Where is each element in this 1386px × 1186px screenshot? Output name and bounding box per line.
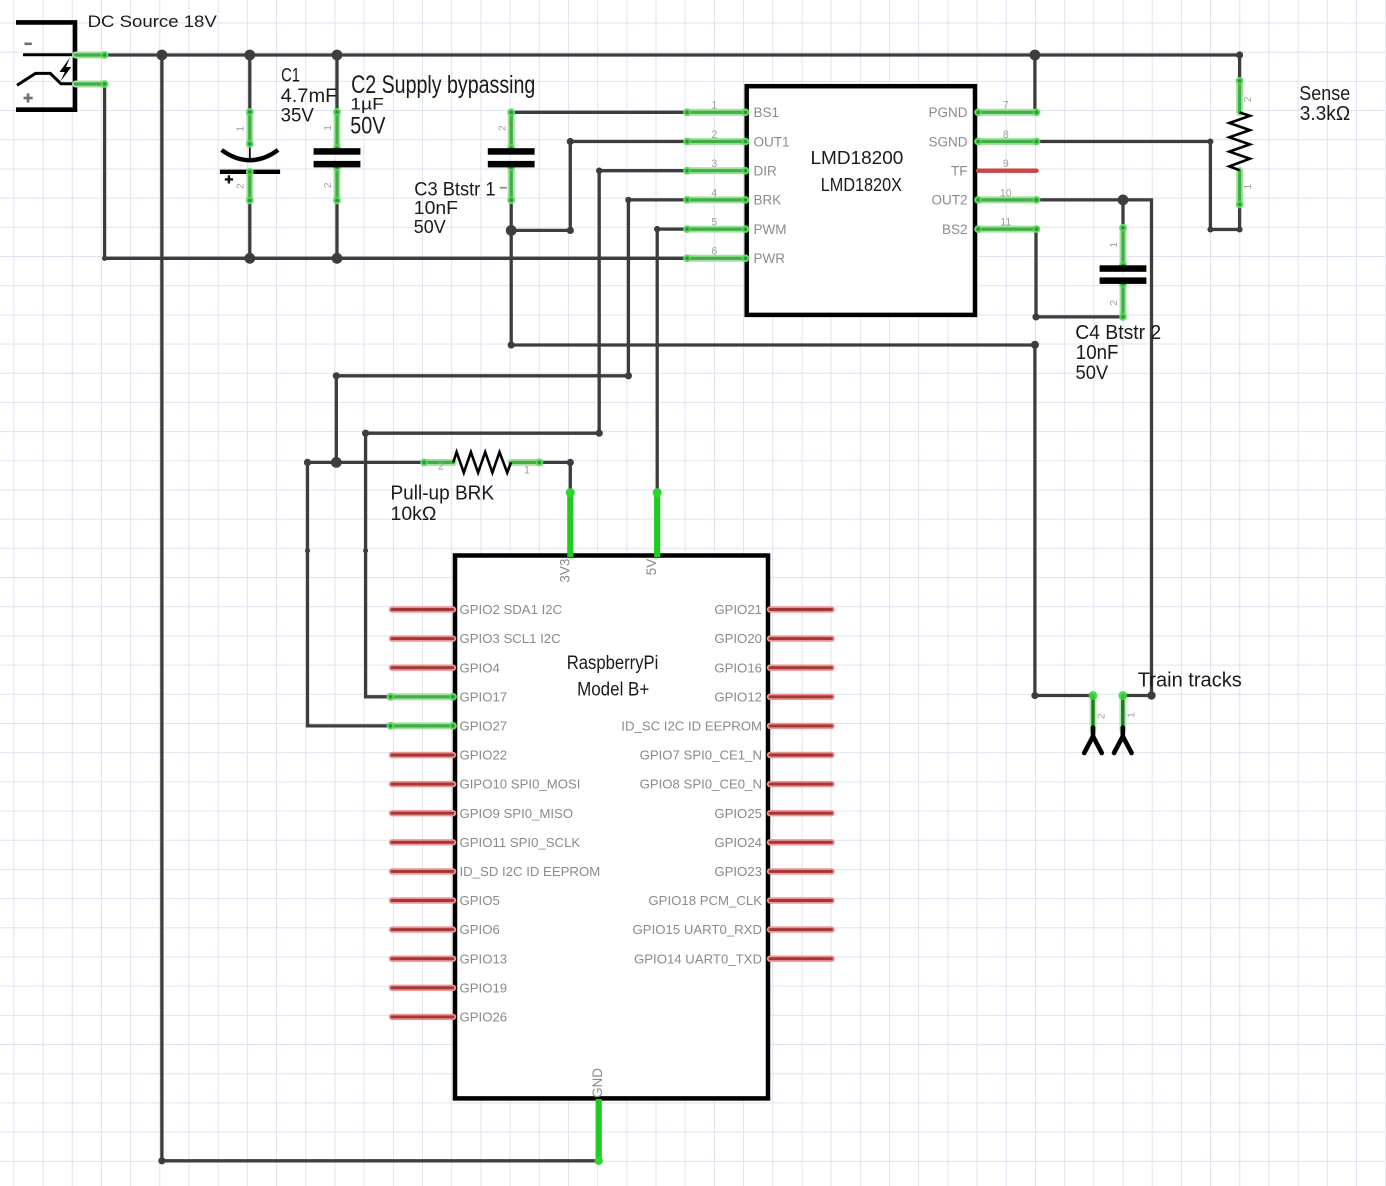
pin lead U1 pin 10 OUT2 lead xyxy=(974,196,1040,204)
pin lead RPi right pin GPIO25 xyxy=(770,810,832,816)
pin lead RPi left pin ID_SD I2C ID EEPROM xyxy=(392,868,453,874)
svg-text:2: 2 xyxy=(711,129,717,141)
wire sense top drop xyxy=(1238,55,1241,81)
svg-text:3: 3 xyxy=(711,158,717,170)
svg-text:1: 1 xyxy=(1127,712,1138,718)
svg-text:GPIO13: GPIO13 xyxy=(460,951,508,966)
pin lead U1 pin 11 BS2 lead xyxy=(974,225,1040,233)
svg-text:TF: TF xyxy=(951,164,968,179)
svg-text:50V: 50V xyxy=(414,216,446,237)
junction GND bend xyxy=(158,1157,165,1164)
pin lead RPi left pin GPIO2 SDA1 I2C xyxy=(392,606,453,612)
wire top supply bus xyxy=(105,53,1240,56)
pin lead RPi left pin GPIO6 xyxy=(392,926,453,932)
pin lead RPi left pin GPIO27 xyxy=(387,722,457,730)
svg-text:9: 9 xyxy=(1003,158,1009,170)
svg-text:GPIO26: GPIO26 xyxy=(460,1010,508,1025)
DC source plus mark xyxy=(24,93,33,102)
capacitor C2 plate 1 xyxy=(314,148,361,155)
svg-text:5: 5 xyxy=(711,217,717,229)
svg-text:GPIO12: GPIO12 xyxy=(714,689,762,704)
train tracks pin 2 xyxy=(1089,691,1098,730)
svg-text:BS2: BS2 xyxy=(942,222,968,237)
svg-text:GPIO17: GPIO17 xyxy=(460,689,508,704)
wire PGND drop xyxy=(1033,55,1036,112)
pin lead resistor Sense pin 2 xyxy=(1236,77,1244,113)
svg-text:10nF: 10nF xyxy=(414,197,458,218)
svg-text:GPIO24: GPIO24 xyxy=(714,835,762,850)
svg-text:50V: 50V xyxy=(350,112,386,139)
pin lead capacitor C3 pin 1 xyxy=(507,163,515,204)
svg-text:2: 2 xyxy=(1097,713,1108,719)
svg-text:2: 2 xyxy=(323,182,334,188)
svg-text:BS1: BS1 xyxy=(754,105,780,120)
svg-text:1: 1 xyxy=(1109,242,1120,248)
label C3 leader dash xyxy=(500,187,507,189)
svg-text:C4 Btstr 2: C4 Btstr 2 xyxy=(1075,322,1161,344)
junction wire joint a xyxy=(305,548,310,553)
capacitor C1 curved plate xyxy=(222,150,279,160)
svg-text:2: 2 xyxy=(1109,300,1120,306)
junction SGND bend b xyxy=(1207,227,1213,233)
svg-text:GPIO7 SPI0_CE1_N: GPIO7 SPI0_CE1_N xyxy=(640,748,762,763)
RPi 3V3 pin xyxy=(566,488,575,557)
junction DIR bend b xyxy=(596,430,603,437)
svg-text:GPIO14 UART0_TXD: GPIO14 UART0_TXD xyxy=(634,951,762,966)
junction 3V3 bend xyxy=(567,459,574,466)
svg-text:GPIO11 SPI0_SCLK: GPIO11 SPI0_SCLK xyxy=(460,835,581,850)
wire pull-up row wire xyxy=(308,461,425,464)
pin lead RPi left pin GPIO11 SPI0_SCLK xyxy=(392,839,453,845)
junction PWR bus end xyxy=(102,256,107,261)
svg-text:3.3kΩ: 3.3kΩ xyxy=(1300,102,1351,125)
svg-text:GPIO6: GPIO6 xyxy=(460,922,500,937)
junction GPIO17 bend xyxy=(362,430,369,437)
junction PWM bend xyxy=(654,226,660,232)
U1 pin 9 TF lead (red) xyxy=(978,168,1037,172)
resistor Sense zigzag xyxy=(1229,113,1250,171)
wire DIR lead wire xyxy=(599,169,687,172)
svg-text:GPIO25: GPIO25 xyxy=(714,806,762,821)
RaspberryPi Model B+ body xyxy=(455,556,768,1099)
wire BRK to pull-up xyxy=(336,200,628,463)
wire C1 bottom stub xyxy=(248,201,251,259)
wire sense bottom stub xyxy=(1238,205,1241,230)
svg-text:GPIO5: GPIO5 xyxy=(460,893,500,908)
svg-text:3V3: 3V3 xyxy=(558,559,573,583)
svg-text:PWR: PWR xyxy=(754,251,786,266)
junction PWR-C2 xyxy=(332,253,343,264)
pin lead U1 pin 2 OUT1 lead xyxy=(683,138,749,146)
junction pull-up node xyxy=(331,457,342,468)
wire 3V3 link xyxy=(540,462,571,492)
svg-text:4.7mF: 4.7mF xyxy=(281,86,338,107)
svg-text:1: 1 xyxy=(323,125,334,131)
capacitor C4 plate 2 xyxy=(1100,277,1147,284)
svg-text:2: 2 xyxy=(236,183,247,189)
svg-text:7: 7 xyxy=(1003,100,1009,112)
svg-text:GPIO18 PCM_CLK: GPIO18 PCM_CLK xyxy=(648,893,762,908)
pin lead RPi left pin GPIO3 SCL1 I2C xyxy=(392,635,453,641)
train tracks pin 2 loose-end prongs xyxy=(1084,728,1102,754)
pin lead U1 pin 8 SGND lead xyxy=(974,138,1040,146)
svg-text:1µF: 1µF xyxy=(350,94,384,113)
pin lead RPi right pin GPIO16 xyxy=(770,665,832,671)
svg-text:GPIO19: GPIO19 xyxy=(460,980,508,995)
wire DIR to GPIO17 xyxy=(366,171,600,697)
wire PWR bus xyxy=(105,257,688,260)
svg-text:GPIO3 SCL1 I2C: GPIO3 SCL1 I2C xyxy=(460,631,562,646)
svg-text:OUT2: OUT2 xyxy=(931,193,967,208)
svg-text:GPIO4: GPIO4 xyxy=(460,660,500,675)
wire C2 bottom stub xyxy=(335,201,338,259)
svg-text:4: 4 xyxy=(711,187,717,199)
junction train bend right xyxy=(1147,691,1155,699)
svg-text:GIPO10 SPI0_MOSI: GIPO10 SPI0_MOSI xyxy=(460,777,581,792)
pin lead RPi left pin GIPO10 SPI0_MOSI xyxy=(392,781,453,787)
capacitor C1 straight plate xyxy=(220,170,280,174)
pin lead capacitor C4 pin 1 xyxy=(1119,224,1127,269)
pin lead DC source pin + xyxy=(76,80,109,88)
svg-text:50V: 50V xyxy=(1076,362,1109,384)
svg-text:BRK: BRK xyxy=(754,193,782,208)
junction BRK bend a xyxy=(625,197,631,203)
pin lead RPi left pin GPIO26 xyxy=(392,1014,453,1020)
pin lead RPi right pin GPIO8 SPI0_CE0_N xyxy=(770,781,832,787)
svg-text:LMD18200: LMD18200 xyxy=(811,147,904,168)
junction bus-C1 xyxy=(244,50,255,61)
pin lead RPi left pin GPIO19 xyxy=(392,985,453,991)
capacitor C3 plate 2 xyxy=(488,161,535,168)
wire C3 bottom stub xyxy=(510,200,513,230)
svg-text:GPIO16: GPIO16 xyxy=(714,660,762,675)
pin lead RPi right pin GPIO12 xyxy=(770,694,832,700)
pin lead RPi right pin GPIO7 SPI0_CE1_N xyxy=(770,752,832,758)
pin lead resistor Pull-up pin 1 xyxy=(511,459,543,467)
wire C3 to OUT1 xyxy=(511,142,687,231)
pin lead RPi right pin GPIO20 xyxy=(770,635,832,641)
DC source lightning bolt xyxy=(60,58,72,82)
pin lead RPi right pin GPIO14 UART0_TXD xyxy=(770,956,832,962)
svg-text:1: 1 xyxy=(711,100,717,112)
svg-text:GND: GND xyxy=(590,1068,605,1098)
svg-text:RaspberryPi: RaspberryPi xyxy=(567,653,659,674)
svg-text:DIR: DIR xyxy=(754,164,778,179)
svg-text:Train tracks: Train tracks xyxy=(1138,668,1242,691)
junction bus-C2 xyxy=(332,50,343,61)
svg-text:10nF: 10nF xyxy=(1076,342,1119,364)
svg-text:8: 8 xyxy=(1003,129,1009,141)
pin lead RPi left pin GPIO9 SPI0_MISO xyxy=(392,810,453,816)
pin lead U1 pin 3 DIR lead xyxy=(683,167,749,175)
junction OUT2-C4 node xyxy=(1118,195,1129,206)
svg-text:GPIO22: GPIO22 xyxy=(460,748,508,763)
wire PWM to 5V xyxy=(656,229,659,493)
wire DC+ drop xyxy=(103,84,106,258)
train tracks pin 1 loose-end prongs xyxy=(1114,728,1132,754)
svg-text:2: 2 xyxy=(497,125,508,131)
svg-text:5V: 5V xyxy=(644,559,659,576)
svg-text:PGND: PGND xyxy=(928,105,967,120)
op-amp/driver IC U1 LMD18200 body xyxy=(747,86,975,315)
svg-text:GPIO23: GPIO23 xyxy=(714,864,762,879)
pin lead RPi left pin GPIO22 xyxy=(392,752,453,758)
pin lead U1 pin 1 BS1 lead xyxy=(683,108,749,116)
pin lead RPi right pin GPIO21 xyxy=(770,606,832,612)
junction bus-PGND xyxy=(1030,50,1041,61)
svg-text:11: 11 xyxy=(1000,217,1011,229)
svg-text:GPIO9 SPI0_MISO: GPIO9 SPI0_MISO xyxy=(460,806,574,821)
pin lead DC source pin - xyxy=(76,51,109,59)
capacitor C2 plate 2 xyxy=(314,161,361,168)
junction train bend left xyxy=(1031,692,1038,699)
pin lead U1 pin 6 PWR lead xyxy=(683,254,749,262)
svg-text:GPIO27: GPIO27 xyxy=(460,719,508,734)
capacitor C1 polarity plus xyxy=(225,175,233,183)
junction wire joint b xyxy=(363,548,368,553)
svg-text:Model B+: Model B+ xyxy=(577,680,649,701)
junction sense bottom bend xyxy=(1237,227,1243,233)
DC source minus mark xyxy=(25,42,32,45)
wire BS1 net xyxy=(511,111,687,114)
capacitor C3 plate 1 xyxy=(488,148,535,155)
pin lead capacitor C2 pin 2 xyxy=(333,163,341,204)
pin lead capacitor C4 pin 2 xyxy=(1119,280,1127,321)
svg-text:GPIO21: GPIO21 xyxy=(714,602,762,617)
svg-text:35V: 35V xyxy=(281,105,315,126)
pin lead RPi left pin GPIO5 xyxy=(392,897,453,903)
pin lead resistor Pull-up pin 2 xyxy=(420,459,453,467)
pin lead RPi left pin GPIO13 xyxy=(392,956,453,962)
svg-text:DC Source 18V: DC Source 18V xyxy=(88,12,217,31)
junction C3 node corner xyxy=(567,227,574,234)
junction C3 node xyxy=(506,225,517,236)
junction BRK bend c xyxy=(333,372,340,379)
svg-text:PWM: PWM xyxy=(754,222,787,237)
wire BRK lead wire xyxy=(628,198,687,201)
pin lead RPi left pin GPIO4 xyxy=(392,665,453,671)
junction GPIO27 bend xyxy=(304,459,311,466)
pin lead capacitor C2 pin 1 xyxy=(333,108,341,152)
RPi GND pin xyxy=(595,1099,603,1165)
wire C4 bottom to BS2 xyxy=(1036,229,1123,317)
svg-text:1: 1 xyxy=(236,126,247,132)
pin lead RPi right pin GPIO23 xyxy=(770,868,832,874)
capacitor C4 plate 1 xyxy=(1100,265,1147,272)
svg-text:10: 10 xyxy=(1000,187,1012,199)
svg-text:2: 2 xyxy=(438,461,444,473)
pin lead capacitor C1 pin 1 xyxy=(246,108,254,148)
DC source V1 body xyxy=(16,22,75,109)
pin lead RPi right pin GPIO15 UART0_RXD xyxy=(770,926,832,932)
pin lead RPi right pin ID_SC I2C ID EEPROM xyxy=(770,723,832,729)
wire ground run DC- to RPi GND xyxy=(162,55,599,1161)
wire OUT2 to train track 1 xyxy=(1037,200,1152,696)
junction DIR bend a xyxy=(596,168,602,174)
svg-text:LMD1820X: LMD1820X xyxy=(821,175,902,195)
svg-text:2: 2 xyxy=(1243,96,1254,102)
pin lead RPi right pin GPIO24 xyxy=(770,839,832,845)
svg-text:GPIO2 SDA1 I2C: GPIO2 SDA1 I2C xyxy=(460,602,563,617)
RPi 5V pin xyxy=(653,488,662,557)
wire GPIO27 wire xyxy=(308,462,391,726)
svg-text:OUT1: OUT1 xyxy=(754,134,790,149)
svg-text:ID_SD I2C ID EEPROM: ID_SD I2C ID EEPROM xyxy=(460,864,601,879)
svg-text:GPIO20: GPIO20 xyxy=(714,631,762,646)
wire C4 top drop xyxy=(1121,200,1124,228)
junction OUT1 join xyxy=(567,138,574,145)
pin lead resistor Sense pin 1 xyxy=(1236,170,1244,208)
wire SGND to sense bottom xyxy=(1037,142,1240,230)
svg-text:10kΩ: 10kΩ xyxy=(391,503,437,525)
svg-text:Pull-up BRK: Pull-up BRK xyxy=(391,481,495,504)
junction wire bend right xyxy=(1031,341,1039,349)
wire C1 top stub xyxy=(248,55,251,112)
resistor Pull-up zigzag xyxy=(453,452,511,473)
junction bus-GND xyxy=(157,50,168,61)
svg-text:6: 6 xyxy=(711,246,717,258)
pin lead capacitor C3 pin 2 xyxy=(507,108,515,152)
junction bus corner xyxy=(1236,51,1243,58)
junction C4-BS2 bend xyxy=(1032,313,1039,320)
pin lead U1 pin 5 PWM lead xyxy=(683,225,749,233)
wire PWM lead wire xyxy=(657,227,687,230)
pin lead U1 pin 7 PGND lead xyxy=(974,108,1040,116)
junction PWR-C1 xyxy=(244,253,255,264)
junction BRK bend b xyxy=(625,372,632,379)
svg-text:C1: C1 xyxy=(281,66,300,87)
pin lead capacitor C1 pin 2 xyxy=(246,168,254,205)
svg-text:GPIO8 SPI0_CE0_N: GPIO8 SPI0_CE0_N xyxy=(640,777,762,792)
pin lead U1 pin 4 BRK lead xyxy=(683,196,749,204)
junction wire bend mid xyxy=(508,341,515,348)
svg-text:1: 1 xyxy=(1243,184,1254,190)
svg-text:ID_SC I2C ID EEPROM: ID_SC I2C ID EEPROM xyxy=(621,719,762,734)
svg-text:1: 1 xyxy=(524,465,530,477)
svg-text:SGND: SGND xyxy=(928,134,967,149)
junction SGND bend a xyxy=(1207,139,1213,145)
pin lead RPi right pin GPIO18 PCM_CLK xyxy=(770,897,832,903)
wire C3 to train track 2 xyxy=(511,230,1093,695)
train tracks pin 1 xyxy=(1118,691,1127,730)
svg-text:GPIO15 UART0_RXD: GPIO15 UART0_RXD xyxy=(633,922,762,937)
pin lead RPi left pin GPIO17 xyxy=(387,693,457,701)
wire C2 top stub xyxy=(335,55,338,112)
capacitor C1 connector stub xyxy=(249,144,251,162)
